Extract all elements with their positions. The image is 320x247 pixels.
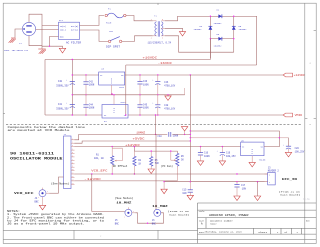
ground arrow C10 (197, 161, 203, 166)
wire -16V rail (126, 64, 257, 66)
svg-text:+12VDC: +12VDC (125, 144, 141, 147)
svg-text:2: 2 (38, 197, 39, 199)
svg-text:1: 1 (151, 19, 152, 21)
capacitor C42 (83, 75, 88, 95)
capacitor C20 (283, 144, 291, 152)
svg-text:470U,16V: 470U,16V (164, 107, 176, 110)
svg-text:Main Board): Main Board) (169, 213, 189, 216)
svg-text:D: D (113, 112, 114, 114)
junction filter gnd (49, 46, 50, 47)
svg-text:D: D (111, 82, 112, 84)
svg-text:D: D (252, 153, 253, 155)
svg-text:BNC: BNC (152, 223, 157, 226)
wire T1 sec bottom to bridge bottom (165, 36, 234, 52)
capacitor C15 (188, 182, 193, 196)
svg-text:VCO_EFC: VCO_EFC (14, 191, 34, 195)
svg-text:10U,25V: 10U,25V (226, 155, 236, 158)
junction dots -12 rail (125, 114, 158, 115)
svg-text:C48: C48 (164, 104, 169, 107)
wire U3 VI feed (72, 74, 98, 76)
svg-text:1N4002: 1N4002 (194, 28, 203, 31)
wire to BNC J5 (91, 174, 93, 212)
wire -16 rail drop (125, 65, 127, 115)
fuse F1 (105, 13, 126, 18)
AC filter FL1 (59, 22, 80, 39)
junction dots left bank (72, 59, 87, 116)
svg-text:IN(L): IN(L) (60, 29, 66, 32)
svg-text:9: 9 (72, 166, 73, 168)
svg-text:100N: 100N (173, 135, 179, 138)
wire R2/R5/R6 feed (134, 147, 177, 154)
wire +12VDC net (pin3) to U5 (75, 146, 241, 148)
capacitor C48 (152, 95, 160, 115)
ground triangle (below filter) (59, 48, 65, 53)
svg-text:10U,25V: 10U,25V (295, 150, 305, 153)
svg-text:Thursday, January 24, 2013: Thursday, January 24, 2013 (205, 231, 243, 234)
svg-text:Sheet: Sheet (258, 231, 267, 234)
svg-text:90 10811-63111: 90 10811-63111 (10, 152, 54, 156)
svg-text:1: 1 (154, 211, 155, 213)
ground arrow C15 (187, 195, 193, 200)
svg-text:2: 2 (72, 142, 73, 144)
diode D1 (218, 14, 222, 18)
svg-text:SW1: SW1 (109, 30, 114, 33)
junction dots ground bus (163, 181, 258, 182)
svg-text:7812: 7812 (119, 86, 125, 89)
svg-text:VMID: VMID (295, 114, 303, 117)
diode D5 (232, 26, 236, 30)
connector J2 (64, 136, 72, 189)
capacitor C10 (198, 147, 203, 161)
svg-text:C41: C41 (58, 103, 63, 106)
svg-text:100N: 100N (143, 107, 149, 110)
svg-text:2: 2 (269, 182, 270, 184)
svg-text:6: 6 (72, 155, 73, 157)
capacitor C40 (66, 79, 75, 85)
wire filter GND to grounds (42, 37, 63, 49)
svg-text:1: 1 (269, 174, 270, 176)
svg-text:3300U,35V: 3300U,35V (56, 108, 69, 111)
svg-text:1: 1 (133, 211, 134, 213)
svg-text:Main Board): Main Board) (280, 194, 300, 197)
TITLE BLOCK (198, 203, 317, 243)
text from J1 on main board (EFC) (279, 190, 301, 196)
wire U4 VI left (45, 114, 102, 116)
ground arrow C20 (285, 152, 291, 157)
svg-text:14: 14 (72, 183, 74, 185)
svg-text:+: + (152, 79, 153, 81)
svg-text:HEADER 2: HEADER 2 (268, 170, 280, 173)
ground earth (below filter) (38, 49, 46, 54)
svg-text:+5VDC: +5VDC (133, 137, 146, 140)
wire mid rail (72, 94, 184, 96)
wire filter OUT(L) to switch (80, 30, 109, 41)
svg-text:78L05: 78L05 (259, 158, 266, 161)
power flag +12VDC (283, 73, 305, 77)
svg-text:+: + (152, 103, 153, 105)
wire U4 GND stub (113, 95, 115, 105)
resistor R5 (150, 151, 153, 169)
switch SW1 (108, 37, 121, 43)
svg-text:+12VDC: +12VDC (294, 74, 306, 77)
svg-text:10N: 10N (182, 192, 187, 195)
svg-text:8: 8 (162, 37, 163, 39)
svg-text:C40: C40 (58, 80, 63, 83)
capacitor C46 (152, 75, 160, 95)
wire U5 GND stub (251, 156, 253, 163)
capacitor C45 (137, 95, 142, 115)
svg-text:115/230VOLT, 0.7A: 115/230VOLT, 0.7A (148, 41, 172, 44)
svg-text:C18: C18 (157, 135, 162, 138)
wire rail drop to U4 VI (44, 60, 46, 116)
svg-text:(See Notes): (See Notes) (51, 182, 70, 185)
svg-text:10: 10 (72, 169, 74, 171)
svg-text:3: 3 (72, 145, 73, 147)
svg-text:7912: 7912 (120, 101, 126, 104)
DASHED SEPARATOR LINE (VCO module boundary) (6, 124, 302, 126)
wire J6 up to 10MHZ net (155, 134, 157, 209)
svg-text:DC Offset: DC Offset (113, 165, 128, 168)
wire J4 ground stub (42, 197, 44, 206)
svg-text:8: 8 (72, 162, 73, 164)
capacitor C43 (137, 75, 142, 95)
svg-text:VI: VI (242, 146, 244, 149)
wire +5VDC net (pin2) (75, 141, 191, 143)
connector J3 (265, 172, 276, 185)
capacitor C17 (234, 182, 239, 196)
svg-text:C46: C46 (164, 81, 169, 84)
svg-text:AC FILTER: AC FILTER (66, 41, 82, 44)
junction dots mid rail (139, 94, 168, 95)
regulator U5 (241, 142, 264, 156)
junction dots +12 rail (139, 74, 191, 75)
ground arrow J4 (39, 205, 45, 210)
wire bridge to +16 rail (209, 39, 211, 60)
svg-text:OUT(L): OUT(L) (71, 29, 78, 32)
capacitor C19 (217, 147, 225, 161)
wire T1 center tap to arrow (165, 28, 183, 31)
wire T1 sec top to bridge (165, 16, 211, 21)
svg-text:OUT(H): OUT(H) (71, 25, 78, 28)
ground arrow U5 (249, 162, 255, 167)
svg-text:5: 5 (72, 152, 73, 154)
text oscillator module (10, 152, 63, 161)
svg-text:2: 2 (124, 217, 125, 219)
svg-text:100, 1W: 100, 1W (94, 157, 104, 160)
junction dot loop (147, 223, 148, 224)
svg-text:+: + (217, 151, 218, 153)
wire U3 GND stub (110, 85, 112, 95)
svg-text:FUSE: FUSE (106, 21, 112, 24)
wire J3 pin2 drop (257, 182, 259, 196)
svg-text:1N4002: 1N4002 (214, 44, 223, 47)
svg-text:VI: VI (100, 74, 102, 77)
svg-text:(PC Fan): (PC Fan) (161, 165, 174, 168)
wire -12VDC net (pin13) (75, 180, 178, 182)
notes paragraph (7, 210, 105, 225)
svg-text:BNC: BNC (35, 200, 40, 203)
wire U5 VO up and EFC line (190, 131, 288, 147)
svg-text:10_MHZ: 10_MHZ (116, 200, 131, 204)
wire filter OUT(H) to fuse (80, 16, 105, 26)
power arrow center tap (179, 32, 185, 36)
BNC connector J5 (124, 207, 135, 218)
ground arrow mid rail (165, 95, 171, 101)
potentiometer R6 (171, 151, 179, 181)
svg-text:J6 as a front-panel 10 MHz out: J6 as a front-panel 10 MHz output. (7, 223, 85, 226)
ground arrow x257 (254, 196, 260, 201)
svg-text:-12VDC: -12VDC (84, 178, 102, 181)
svg-text:4: 4 (151, 37, 152, 39)
wire +16V rail (45, 59, 210, 61)
svg-text:100N: 100N (143, 84, 149, 87)
svg-text:IN(H): IN(H) (60, 25, 66, 28)
svg-text:+: + (283, 144, 284, 146)
svg-text:OSCILLATOR MODULE: OSCILLATOR MODULE (10, 157, 63, 161)
svg-text:ARDUINO GPSDO, POWER: ARDUINO GPSDO, POWER (209, 214, 249, 217)
svg-text:K1.0A: K1.0A (303, 198, 310, 201)
svg-text:<Doc>: <Doc> (210, 223, 217, 226)
svg-text:50K: 50K (155, 162, 160, 165)
svg-text:+: + (66, 79, 67, 81)
wire ground bus y181.7 (164, 181, 268, 183)
resistor R2 (133, 151, 136, 174)
wire J1 to filter IN(H) (42, 24, 59, 26)
text from J1 on main board (J6) (168, 210, 190, 216)
svg-text:are mounted at VCO Module: are mounted at VCO Module (8, 129, 71, 132)
BNC connector J6 (154, 209, 161, 216)
wire U4 VO -12 rail (128, 114, 283, 116)
junction dots bridge (210, 16, 235, 40)
svg-text:10_MHZ: 10_MHZ (152, 204, 168, 208)
wire fuse to transformer pin1 (126, 16, 153, 21)
junction R6 wiper (170, 150, 171, 151)
svg-text:100N: 100N (89, 84, 95, 87)
transformer T1 (153, 21, 165, 37)
J2 pin numbers (72, 138, 74, 185)
diode D4 (209, 26, 213, 30)
series capacitor C18 (169, 132, 171, 137)
capacitor C44 (83, 95, 88, 115)
ground earth (left of J1) (9, 38, 16, 43)
svg-text:VI: VI (104, 114, 106, 117)
ground arrow C17 (234, 196, 240, 201)
J2 pin stubs (71, 140, 75, 185)
wire J1 left pin to ground (15, 29, 22, 38)
svg-text:3300U,35V: 3300U,35V (56, 85, 69, 88)
svg-text:470U,16V: 470U,16V (164, 85, 176, 88)
svg-text:-16VDC: -16VDC (158, 62, 173, 65)
ground arrow R5 (148, 169, 154, 174)
svg-text:10MHZ: 10MHZ (136, 131, 145, 134)
wire J1 top pin loop (29, 14, 42, 46)
diode D3 (218, 37, 222, 41)
bridge wires (210, 16, 256, 65)
svg-text:FL1: FL1 (59, 19, 64, 22)
resistor R1 (pot) (111, 147, 123, 174)
wire J4 to VCO_EFC drop (50, 192, 59, 194)
wire long vertical x190 (189, 75, 191, 182)
regulator U3 (99, 72, 125, 85)
svg-text:4: 4 (72, 149, 73, 151)
svg-text:BNC: BNC (115, 223, 120, 226)
wire J2 left side to BNC J4 (59, 177, 64, 193)
svg-text:7: 7 (72, 159, 73, 161)
wire U3 VO +12 rail (125, 74, 284, 76)
ground arrow x164 (161, 182, 167, 194)
svg-text:+16VDC: +16VDC (143, 57, 158, 60)
connector J1 (IEC inlet) (22, 22, 35, 35)
junction and arrow on 10MHZ line (184, 134, 185, 135)
wire 10MHZ net (pin1) (75, 134, 168, 139)
wire left bank vertical (71, 60, 73, 116)
wire J1 to filter IN(L) (36, 28, 59, 30)
svg-text:5: 5 (162, 19, 163, 21)
svg-text:100N: 100N (204, 155, 210, 158)
svg-text:11: 11 (72, 173, 74, 175)
note text components below dashed line (8, 126, 86, 132)
wire x155.5 drop to 10MHZ line (155, 115, 157, 134)
svg-text:EFC_IN: EFC_IN (282, 177, 297, 181)
svg-text:1N4002: 1N4002 (239, 28, 248, 31)
svg-text:Title: Title (199, 210, 206, 213)
junction dots VCO_EFC (91, 173, 238, 174)
regulator U4 (102, 105, 128, 119)
wire switch to transformer pin4 (122, 36, 153, 42)
svg-text:13: 13 (72, 179, 74, 181)
junction dots EFC line (190, 130, 280, 138)
svg-text:VCO_EFC: VCO_EFC (91, 170, 108, 173)
junction dots +12 osc net (112, 146, 224, 147)
svg-text:1: 1 (47, 191, 48, 193)
svg-text:100N: 100N (89, 107, 95, 110)
svg-text:10N: 10N (242, 188, 247, 191)
svg-text:1: 1 (72, 138, 73, 140)
svg-text:12: 12 (72, 176, 74, 178)
wire J5 to J6 loop (135, 213, 163, 223)
wire VCO_EFC net (pin11) (75, 173, 268, 175)
svg-text:1N4002: 1N4002 (214, 22, 223, 25)
svg-text:CONN. IEC 60320 C14: CONN. IEC 60320 C14 (4, 49, 29, 52)
T1 pin numbers (151, 19, 163, 39)
power flag VMID (283, 113, 302, 117)
capacitor C41 (66, 102, 75, 108)
svg-text:DIP SPST: DIP SPST (106, 46, 121, 49)
svg-text:+: + (66, 102, 67, 104)
BNC connector J4 (38, 188, 50, 199)
ground arrow C19 (219, 161, 225, 166)
